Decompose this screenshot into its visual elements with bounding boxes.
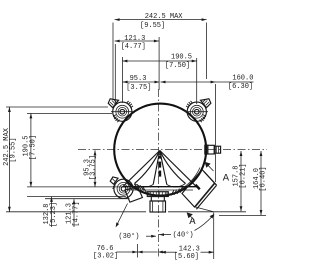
dim 76.6 bottom (93, 244, 158, 261)
dim 160.0 horizontal right (161, 75, 254, 183)
angle dim (40) (159, 214, 214, 240)
svg-text:[4.77]: [4.77] (72, 201, 80, 226)
bottom conduit fitting (147, 192, 168, 212)
dim 142.3 bottom (158, 213, 214, 261)
svg-text:[7.50]: [7.50] (165, 62, 190, 70)
mounting lug top-left (108, 99, 134, 122)
dim 95.3 vertical left (83, 150, 97, 187)
svg-text:[6.21]: [6.21] (239, 163, 247, 188)
svg-text:[5.23]: [5.23] (50, 202, 58, 227)
dim 242.5 MAX horizontal top (113, 13, 207, 100)
dim 157.8 vertical right (168, 151, 247, 212)
svg-text:[9.55]: [9.55] (140, 22, 165, 30)
dim 132.8 vertical bottom-left (27, 196, 130, 227)
horizontal centerline (78, 149, 267, 151)
svg-text:[5.60]: [5.60] (174, 253, 199, 261)
dim 190.5 vertical left (23, 113, 123, 186)
mounting lug top-right (185, 99, 211, 122)
svg-text:A: A (223, 172, 230, 184)
vertical centerline (158, 89, 160, 257)
svg-text:121.3: 121.3 (124, 35, 145, 43)
svg-text:160.0: 160.0 (232, 75, 253, 83)
enclosure main circle (114, 104, 206, 196)
dim 121.3 horizontal (115, 35, 160, 104)
dim 164.0 vertical right (219, 151, 268, 215)
dim 190.5 horizontal (122, 23, 206, 105)
svg-text:190.5: 190.5 (171, 54, 192, 62)
section arrow A bottom (187, 212, 197, 227)
svg-text:[3.02]: [3.02] (93, 253, 118, 261)
section arrow A top (205, 162, 230, 185)
svg-text:[3.75]: [3.75] (126, 84, 151, 92)
junction box (40 deg) (179, 168, 217, 212)
svg-text:[4.77]: [4.77] (121, 43, 146, 51)
horn cone (123, 151, 197, 191)
dim 121.3 vertical bottom-left (66, 199, 81, 227)
right side plug fitting (205, 145, 221, 154)
dim 242.5 MAX vertical left (3, 107, 146, 212)
bottom-right hatched band (171, 187, 182, 195)
svg-text:[3.75]: [3.75] (90, 155, 98, 180)
svg-text:(40°): (40°) (173, 230, 194, 239)
dim 95.3 horizontal (123, 75, 160, 92)
svg-text:[6.30]: [6.30] (228, 83, 253, 91)
svg-text:(30°): (30°) (118, 232, 139, 241)
mounting lug bottom-left (110, 177, 133, 199)
horn center slot marks (158, 156, 161, 177)
svg-text:A: A (189, 216, 196, 228)
angle dim (30) (116, 204, 157, 242)
bottom-left horn bell slab (125, 184, 146, 202)
svg-text:[9.55]: [9.55] (9, 137, 17, 162)
